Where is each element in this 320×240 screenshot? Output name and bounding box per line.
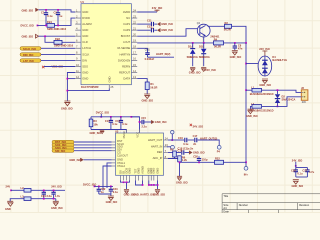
svg-text:GND_ISO: GND_ISO: [193, 151, 205, 155]
wire P2-2 to U5: [74, 144, 112, 146]
capacitor C2: [54, 10, 63, 26]
net label 24V_ISO (mid sheet): [190, 124, 203, 129]
ground GND_ISO (U5 bottom left): [124, 189, 136, 196]
svg-text:DVDD-EN: DVDD-EN: [118, 58, 130, 62]
svg-text:HART-IN: HART-IN: [119, 52, 130, 56]
U5 top pins: [122, 130, 140, 139]
svg-text:16: 16: [133, 57, 136, 61]
svg-text:GND_ISO: GND_ISO: [292, 184, 304, 188]
wire bus tap to D4 mid: [246, 63, 258, 65]
port P4: [217, 145, 221, 153]
svg-text:SMBG5A: SMBG5A: [187, 55, 198, 59]
junction dots emitter rail: [192, 42, 247, 44]
wire ADC bottom rail: [180, 162, 247, 177]
svg-text:24: 24: [165, 136, 168, 140]
U5 left pin names: [117, 139, 128, 168]
svg-text:4.7u: 4.7u: [55, 194, 61, 198]
power port DVCC_ISO (bottom left of U5): [83, 183, 96, 188]
svg-text:REFIN: REFIN: [122, 64, 130, 68]
wire GND rail to U1 pin1: [39, 10, 76, 12]
ground GND (bottom left): [5, 201, 13, 211]
resistor R7 (on ADC rail): [215, 157, 224, 165]
ferrite bead L2: [21, 186, 66, 192]
svg-text:ADC_IP: ADC_IP: [153, 156, 163, 160]
wire to U1 pin5: [39, 35, 76, 37]
svg-text:24V_ISO: 24V_ISO: [259, 47, 270, 51]
power port DVCC_ISO: [21, 24, 39, 28]
wire HART_IN row: [167, 146, 168, 148]
svg-text:DATA: DATA: [123, 76, 130, 80]
svg-text:GND_ISO: GND_ISO: [106, 200, 118, 204]
svg-text:LATCH: LATCH: [82, 46, 91, 50]
wire L4 to GND: [251, 106, 253, 109]
zener diode D1A: [187, 43, 198, 66]
svg-text:GND_ISO: GND_ISO: [61, 107, 73, 111]
svg-text:24V_ISO: 24V_ISO: [152, 6, 163, 10]
svg-text:HART_OUT: HART_OUT: [148, 138, 163, 142]
ground GND_ISO (U5 bottom right): [153, 189, 165, 196]
svg-text:47n: 47n: [238, 46, 243, 50]
svg-text:DVCC_ISO: DVCC_ISO: [21, 24, 34, 28]
svg-text:4.7u: 4.7u: [309, 170, 315, 174]
ground GND_ISO (below U1 left): [61, 101, 73, 111]
svg-text:DVDD: DVDD: [82, 16, 90, 20]
svg-text:CM1: CM1: [145, 49, 151, 51]
svg-text:DVCC: DVCC: [122, 131, 126, 139]
capacitor C22: [97, 186, 106, 194]
svg-text:CLR: CLR: [82, 40, 87, 44]
svg-text:110p: 110p: [202, 158, 208, 162]
port P3 (above HART_OUT row): [171, 131, 174, 141]
wire C12 to GND port: [154, 29, 157, 31]
wire mid rail bottom return: [91, 130, 126, 134]
capacitor C17 (series): [193, 134, 220, 146]
svg-text:LAT_ISO: LAT_ISO: [23, 59, 34, 63]
power port 24V_ISO (above AVDD rail): [152, 6, 163, 12]
svg-text:GND: GND: [82, 10, 88, 14]
svg-text:SMBG5A: SMBG5A: [199, 55, 210, 59]
power port GND_ISO (REF row, right arrow): [189, 151, 204, 155]
svg-text:20: 20: [133, 33, 136, 37]
svg-text:CAP1: CAP1: [123, 22, 131, 26]
wire emitter rail pin18: [137, 42, 246, 44]
power port 24V_ISO (above D4): [259, 47, 270, 56]
svg-text:17: 17: [133, 51, 136, 55]
svg-text:IN+: IN+: [244, 172, 249, 176]
svg-text:GND: GND: [127, 168, 131, 174]
wire ADC_IP row: [168, 152, 180, 159]
svg-text:ALARM: ALARM: [82, 22, 92, 26]
power port GND_ISO (CAP1): [157, 22, 173, 26]
wire P2-4 to U5: [74, 150, 112, 152]
ferrite bead L1: [250, 86, 274, 97]
svg-text:2n: 2n: [193, 142, 196, 146]
resistor R4 (on rail): [214, 37, 224, 48]
U1 pad pin 25: [108, 76, 114, 89]
svg-text:U5: U5: [115, 129, 119, 133]
svg-text:C27: C27: [302, 168, 307, 172]
svg-text:GND_ISO: GND_ISO: [69, 158, 81, 162]
ground GND_ISO (U5 caps): [106, 196, 118, 204]
svg-text:REF: REF: [157, 150, 163, 154]
junction dots bottom rail: [98, 186, 112, 188]
svg-text:24V_ISO: 24V_ISO: [292, 158, 303, 162]
ground GND_ISO (mid rail): [90, 130, 105, 135]
connector J3: [301, 86, 308, 104]
net label GND_HART_ISO (U5 bottom mid): [133, 181, 155, 197]
ground GND_ISO (D1A): [189, 67, 201, 74]
transistor Q1 2N5401: [197, 23, 220, 39]
connector P2 pin 4: [52, 149, 74, 153]
svg-text:REFOUT: REFOUT: [119, 70, 130, 74]
svg-text:CAP2: CAP2: [123, 28, 131, 32]
net label HART_IN: [148, 52, 175, 57]
wire RC bottom rail: [296, 176, 308, 178]
svg-text:R22: R22: [215, 157, 220, 161]
capacitor CM1: [145, 49, 155, 60]
wire U1 pin12 join: [67, 78, 75, 80]
svg-text:25: 25: [110, 85, 113, 89]
power port 24V_ISO (D1B): [201, 67, 216, 71]
svg-text:C12: C12: [147, 25, 152, 29]
power port GND_ISO (C15, right arrow): [151, 120, 166, 124]
resistor R2: [224, 21, 232, 32]
resistor R3: [89, 117, 98, 130]
wire vertical output bus: [245, 43, 247, 166]
svg-text:GND_ISO: GND_ISO: [189, 71, 201, 75]
wire BOOST pin20 to Q1 base: [137, 29, 197, 37]
U5 bottom GND group B wire: [149, 181, 158, 190]
svg-text:GND: GND: [152, 168, 156, 174]
ground GND_ISO (RC): [292, 180, 304, 188]
svg-text:C16: C16: [178, 136, 183, 140]
svg-text:C14: C14: [115, 119, 120, 123]
svg-text:C15: C15: [141, 116, 146, 120]
svg-text:15: 15: [133, 63, 136, 67]
svg-text:C19: C19: [178, 148, 183, 152]
svg-text:VCC: VCC: [135, 132, 139, 138]
resistor R6: [178, 155, 188, 162]
net label 24V (bottom left): [6, 185, 12, 192]
junction dots bottom-left rows: [43, 190, 55, 200]
junction dots output bus: [245, 63, 247, 163]
svg-text:FB2: FB2: [55, 37, 60, 41]
svg-text:14: 14: [133, 69, 136, 73]
svg-text:23: 23: [133, 14, 136, 18]
wire R2 to vertical bus: [232, 26, 247, 43]
svg-text:GND: GND: [82, 76, 88, 80]
svg-text:SCLK: SCLK: [82, 52, 89, 56]
wire caps bottom rail: [99, 194, 111, 196]
title block frame: [222, 194, 320, 213]
wire P1b to U1 pin8: [41, 53, 75, 55]
svg-text:SDI_ISO: SDI_ISO: [55, 149, 65, 153]
svg-text:56.2R: 56.2R: [214, 45, 221, 49]
svg-text:1u: 1u: [59, 14, 62, 18]
svg-text:HART_IN: HART_IN: [151, 145, 163, 149]
svg-text:C11: C11: [147, 19, 152, 23]
svg-text:RI-SENSE: RI-SENSE: [117, 46, 130, 50]
resistor R1: [145, 82, 157, 94]
svg-text:BAV99LT1G: BAV99LT1G: [272, 58, 287, 62]
resistor R5: [170, 147, 176, 157]
svg-text:C13: C13: [105, 119, 110, 123]
svg-text:R4: R4: [214, 37, 218, 41]
svg-text:56.2R: 56.2R: [150, 86, 157, 90]
wire P1a to U1 pin7: [41, 47, 75, 49]
connector P1 pin b: [20, 53, 41, 57]
svg-text:HART_IN(2): HART_IN(2): [156, 52, 171, 56]
capacitor C24: [41, 190, 52, 198]
capacitor C11 (series on CAP1): [147, 19, 154, 30]
wire RC top rail: [296, 167, 308, 169]
wire L1 to J3 pin1: [262, 90, 302, 92]
svg-text:GND: GND: [136, 168, 140, 174]
svg-text:13: 13: [133, 75, 136, 79]
wire REF row: [168, 152, 181, 154]
net label VDO_ISO with no-ERC cross: [42, 65, 63, 69]
svg-text:0.1u: 0.1u: [113, 190, 119, 194]
svg-text:SMD-SMD-3216: SMD-SMD-3216: [54, 44, 74, 48]
wire GND to U5 pin: [84, 159, 112, 161]
capacitor C19 (series on REF): [178, 148, 190, 154]
svg-text:24V_ISO: 24V_ISO: [205, 68, 216, 72]
wire CAP2 pin21 row: [137, 29, 150, 31]
ferrite bead L3: [21, 194, 56, 200]
capacitor C16 (series): [178, 136, 194, 146]
junction dots J3 rows: [277, 89, 279, 107]
wire to ferrite FB2: [45, 36, 75, 42]
wire U5 XTAL2 out: [103, 166, 112, 191]
wire AVDD pin24 rail to Q1 top: [137, 11, 157, 13]
svg-text:GND_ISO: GND_ISO: [155, 120, 167, 124]
svg-text:0.1u: 0.1u: [47, 14, 53, 18]
ferrite bead FB1: [47, 20, 67, 31]
svg-text:I-OUT: I-OUT: [123, 40, 131, 44]
zener diode D1B: [199, 43, 210, 66]
ground GND_ISO (D4): [259, 79, 271, 87]
capacitor C12 (series on CAP2): [147, 25, 154, 33]
wire Q1 emitter drop: [203, 37, 205, 43]
U5 bottom pins: [118, 166, 159, 181]
svg-text:GND_ISO: GND_ISO: [246, 114, 258, 118]
wire Q1 collector to R2: [208, 25, 225, 27]
wire C11 to GND port: [154, 23, 157, 25]
svg-text:C2: C2: [54, 10, 58, 14]
wire P2-3 to U5: [74, 147, 112, 149]
svg-text:GND: GND: [82, 34, 88, 38]
U5 bottom GND group A wire: [121, 181, 130, 190]
svg-text:C26: C26: [291, 168, 296, 172]
svg-text:A4: A4: [223, 206, 227, 210]
wire CAP1 pin22 row: [137, 23, 150, 25]
svg-text:GND: GND: [82, 70, 88, 74]
wire P1c to U1 pin9: [41, 59, 75, 61]
ground GND_ISO (R1): [142, 94, 154, 102]
svg-text:GND: GND: [108, 76, 112, 82]
svg-text:0.1u: 0.1u: [183, 142, 189, 146]
svg-text:2.2u: 2.2u: [142, 125, 148, 129]
svg-text:GND: GND: [82, 28, 88, 32]
svg-text:R1: R1: [150, 82, 154, 86]
svg-text:C1: C1: [41, 10, 45, 14]
op IC U5 DS8500 body: [115, 129, 164, 175]
wire U1 pad pin25 to GND run: [67, 89, 109, 91]
svg-text:NC: NC: [126, 16, 130, 20]
U5 right pins: [148, 136, 168, 160]
power port GND_ISO (2nd): [22, 34, 39, 38]
ground GND_ISO (C8): [230, 51, 242, 60]
svg-text:56.2R: 56.2R: [224, 28, 231, 32]
svg-text:DVCC_ISO: DVCC_ISO: [96, 111, 109, 115]
ground GND_ISO (R6 bottom): [176, 176, 188, 184]
svg-text:GND_HART2_ISO: GND_HART2_ISO: [133, 193, 155, 197]
svg-text:GND_ISO: GND_ISO: [51, 206, 63, 210]
svg-text:AGND: AGND: [140, 166, 144, 174]
svg-text:SCLK_ISO: SCLK_ISO: [23, 47, 36, 51]
wire 24V line to connector J3: [246, 89, 252, 91]
wire DVCC bottom rail: [94, 185, 113, 187]
wire DVCC rail: [37, 18, 75, 25]
wire P2-1 to U5: [74, 141, 112, 143]
power port GND_ISO (top left): [22, 8, 39, 12]
svg-text:24V_ISO: 24V_ISO: [193, 124, 204, 128]
connector P2 pin 2: [52, 143, 74, 147]
svg-text:24: 24: [133, 8, 136, 12]
svg-text:GND_ISO: GND_ISO: [22, 8, 34, 12]
svg-text:24V_ISO: 24V_ISO: [51, 185, 62, 189]
svg-text:1u: 1u: [101, 190, 104, 194]
capacitor C25: [51, 190, 60, 198]
svg-text:GND_ISO: GND_ISO: [153, 193, 165, 197]
svg-text:R2: R2: [225, 21, 229, 25]
port P5 (HART_IN row): [168, 145, 194, 150]
svg-text:C20: C20: [193, 154, 198, 158]
ground GND_ISO (L4): [246, 109, 258, 118]
svg-text:XTAL2: XTAL2: [117, 164, 126, 168]
svg-text:U1: U1: [81, 0, 85, 4]
wire HART_OUT row: [168, 139, 184, 141]
svg-text:P4: P4: [217, 149, 221, 153]
junction dots group A: [123, 181, 128, 183]
junction dots group B: [142, 184, 159, 186]
wire GND row 2: [10, 199, 24, 202]
svg-text:DIN_ISO: DIN_ISO: [23, 53, 33, 57]
junction dots mid rail: [110, 116, 132, 118]
svg-text:24V: 24V: [6, 185, 11, 189]
wire 24V row: [11, 189, 24, 191]
capacitor C1: [41, 10, 53, 26]
svg-text:Date: Date: [223, 210, 229, 213]
svg-text:GND_ISO: GND_ISO: [90, 131, 102, 135]
svg-text:0.1u: 0.1u: [122, 122, 128, 126]
svg-text:GND_ISO: GND_ISO: [142, 98, 154, 102]
capacitor C27: [302, 168, 314, 178]
U1 pins right: [117, 8, 137, 80]
wire VDO to U1 pin10: [44, 66, 75, 68]
svg-text:BLM18AG221SN1D: BLM18AG221SN1D: [250, 92, 274, 96]
svg-text:GND_ISO: GND_ISO: [161, 22, 173, 26]
capacitor C26: [291, 168, 303, 178]
U5 left pin stubs: [112, 142, 116, 166]
ground GND_ISO (bottom left rail): [51, 199, 63, 211]
capacitor C13: [105, 117, 118, 130]
wire U5 XTAL1 out: [107, 163, 112, 188]
svg-text:C24 2.2u: C24 2.2u: [41, 194, 52, 198]
svg-text:GND_ISO: GND_ISO: [161, 28, 173, 32]
connector P1 pin a: [20, 47, 41, 51]
svg-text:GND: GND: [155, 168, 159, 174]
power port GND_ISO (CAP2): [157, 28, 173, 32]
ferrite bead FB2: [54, 37, 74, 48]
svg-text:HART_OUT(2): HART_OUT(2): [200, 136, 217, 140]
svg-text:GND_ISO: GND_ISO: [176, 180, 188, 184]
connector P1 pin c: [20, 59, 41, 63]
title block texts: [223, 194, 309, 213]
svg-text:FB1: FB1: [47, 20, 52, 24]
diode D4 BAV99LT1G: [258, 55, 287, 76]
junction dots DVCC rail: [45, 25, 59, 27]
svg-text:24V: 24V: [302, 102, 307, 104]
svg-text:22: 22: [133, 20, 136, 24]
svg-text:R5: R5: [170, 147, 174, 151]
wire DVCC mid rail: [91, 116, 140, 118]
svg-text:SDO: SDO: [82, 64, 88, 68]
svg-text:10: 10: [76, 63, 79, 67]
capacitor C8: [233, 43, 243, 51]
svg-text:DIN: DIN: [82, 58, 87, 62]
svg-text:21: 21: [133, 26, 136, 30]
svg-text:19: 19: [133, 39, 136, 43]
svg-text:1.2k: 1.2k: [182, 158, 188, 162]
connector P2 pin 1: [52, 140, 74, 144]
TVS diode D2 SMAJ24CA: [275, 90, 296, 106]
svg-text:GND_ISO: GND_ISO: [22, 35, 34, 39]
power port DVCC_ISO (mid rail): [96, 111, 109, 118]
capacitor C15 (U5 top decoupling): [139, 116, 152, 128]
capacitor C20 (on ADC rail): [193, 154, 208, 162]
svg-text:Revision: Revision: [299, 203, 310, 207]
U1 pins left: [75, 8, 92, 80]
svg-text:GND_ISO: GND_ISO: [230, 55, 242, 59]
svg-text:SMD-SMD-3216: SMD-SMD-3216: [47, 27, 67, 31]
svg-text:10k: 10k: [93, 122, 98, 126]
svg-text:GND: GND: [5, 207, 11, 211]
wire mid rail to U5 VCC pin: [131, 117, 139, 133]
svg-text:GND_ISO: GND_ISO: [259, 83, 271, 87]
svg-text:12: 12: [76, 75, 79, 79]
connector P2 pin 3: [52, 146, 74, 150]
wire pin13 to R1: [137, 79, 147, 82]
junction dots GND rail: [45, 9, 59, 11]
svg-text:DAC7750PWR: DAC7750PWR: [81, 85, 99, 89]
svg-text:Title: Title: [223, 194, 228, 198]
port IN+ (bottom of bus): [244, 166, 249, 176]
op IC U1 DAC7750 body: [81, 0, 132, 89]
power port GND_ISO (U5 left): [69, 158, 83, 162]
svg-text:CLKOUT: CLKOUT: [117, 154, 128, 158]
svg-text:18: 18: [133, 45, 136, 49]
wire U1 pin11 to GND run: [67, 73, 75, 102]
wire return line J3 pin2: [262, 97, 301, 107]
svg-text:C17: C17: [193, 134, 198, 138]
svg-text:SMAJ24CA: SMAJ24CA: [282, 98, 296, 102]
junction dot ADC rail: [198, 162, 200, 164]
svg-text:BOOST: BOOST: [121, 34, 131, 38]
wire HART-IN pin17: [137, 48, 147, 52]
svg-text:AVDD: AVDD: [123, 10, 130, 14]
capacitor C14: [115, 117, 128, 130]
